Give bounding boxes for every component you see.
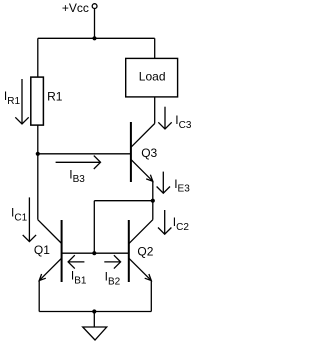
wire Q3 base bbox=[38, 153, 131, 155]
svg-text:Load: Load bbox=[139, 69, 166, 83]
current arrow I_B1 bbox=[68, 255, 84, 268]
Vcc terminal circle bbox=[92, 4, 97, 9]
svg-text:+Vcc: +Vcc bbox=[62, 1, 89, 15]
wire bottom rail bbox=[39, 311, 151, 313]
svg-text:R1: R1 bbox=[47, 89, 63, 103]
wire top rail bbox=[38, 37, 155, 39]
ground bbox=[83, 327, 107, 340]
wire load bottom / Q3 collector bbox=[154, 97, 156, 124]
transistor Q2 bbox=[129, 220, 153, 282]
wire left branch upper bbox=[37, 38, 39, 77]
transistor Q3 bbox=[131, 122, 155, 182]
current arrow I_C2 bbox=[158, 210, 171, 234]
wire Vcc drop bbox=[94, 9, 96, 39]
junction node base rail bbox=[92, 251, 96, 255]
svg-text:IE3: IE3 bbox=[174, 177, 190, 195]
wire Q1 emitter down bbox=[38, 281, 40, 312]
current arrow I_R1 bbox=[15, 79, 28, 124]
svg-text:IC2: IC2 bbox=[173, 215, 190, 233]
svg-text:Q2: Q2 bbox=[137, 245, 153, 259]
svg-text:Q3: Q3 bbox=[141, 146, 157, 160]
wire Q2 emitter down bbox=[150, 281, 152, 312]
svg-text:IB1: IB1 bbox=[71, 268, 87, 286]
svg-text:IB2: IB2 bbox=[105, 270, 121, 288]
svg-text:IB3: IB3 bbox=[69, 168, 85, 185]
svg-text:IC1: IC1 bbox=[11, 205, 28, 223]
svg-text:IR1: IR1 bbox=[4, 89, 21, 107]
current arrow I_B3 bbox=[56, 156, 101, 169]
current arrow I_E3 bbox=[157, 172, 170, 194]
wire Q3 emitter down bbox=[152, 181, 154, 200]
junction node Q3 base bbox=[36, 152, 40, 156]
wire ground stub bbox=[93, 312, 95, 328]
wire emitter node to mid bbox=[94, 200, 153, 202]
junction node bottom rail bbox=[92, 309, 96, 313]
svg-text:Q1: Q1 bbox=[34, 243, 50, 257]
wire base rail Q1-Q2 bbox=[62, 252, 129, 254]
wire left branch lower bbox=[37, 125, 39, 220]
svg-text:IC3: IC3 bbox=[175, 113, 192, 131]
junction node Q3 emitter bbox=[151, 199, 155, 203]
junction node top rail bbox=[92, 36, 96, 40]
transistor Q1 bbox=[38, 220, 62, 282]
resistor R1 bbox=[31, 77, 44, 125]
wire mid down to base rail bbox=[93, 201, 95, 254]
wire Q2 collector down bbox=[152, 201, 154, 220]
current arrow I_C3 bbox=[158, 107, 171, 129]
wire load top bbox=[154, 38, 156, 58]
current arrow I_C1 bbox=[23, 197, 36, 241]
current arrow I_B2 bbox=[104, 255, 120, 268]
load box bbox=[126, 58, 178, 97]
